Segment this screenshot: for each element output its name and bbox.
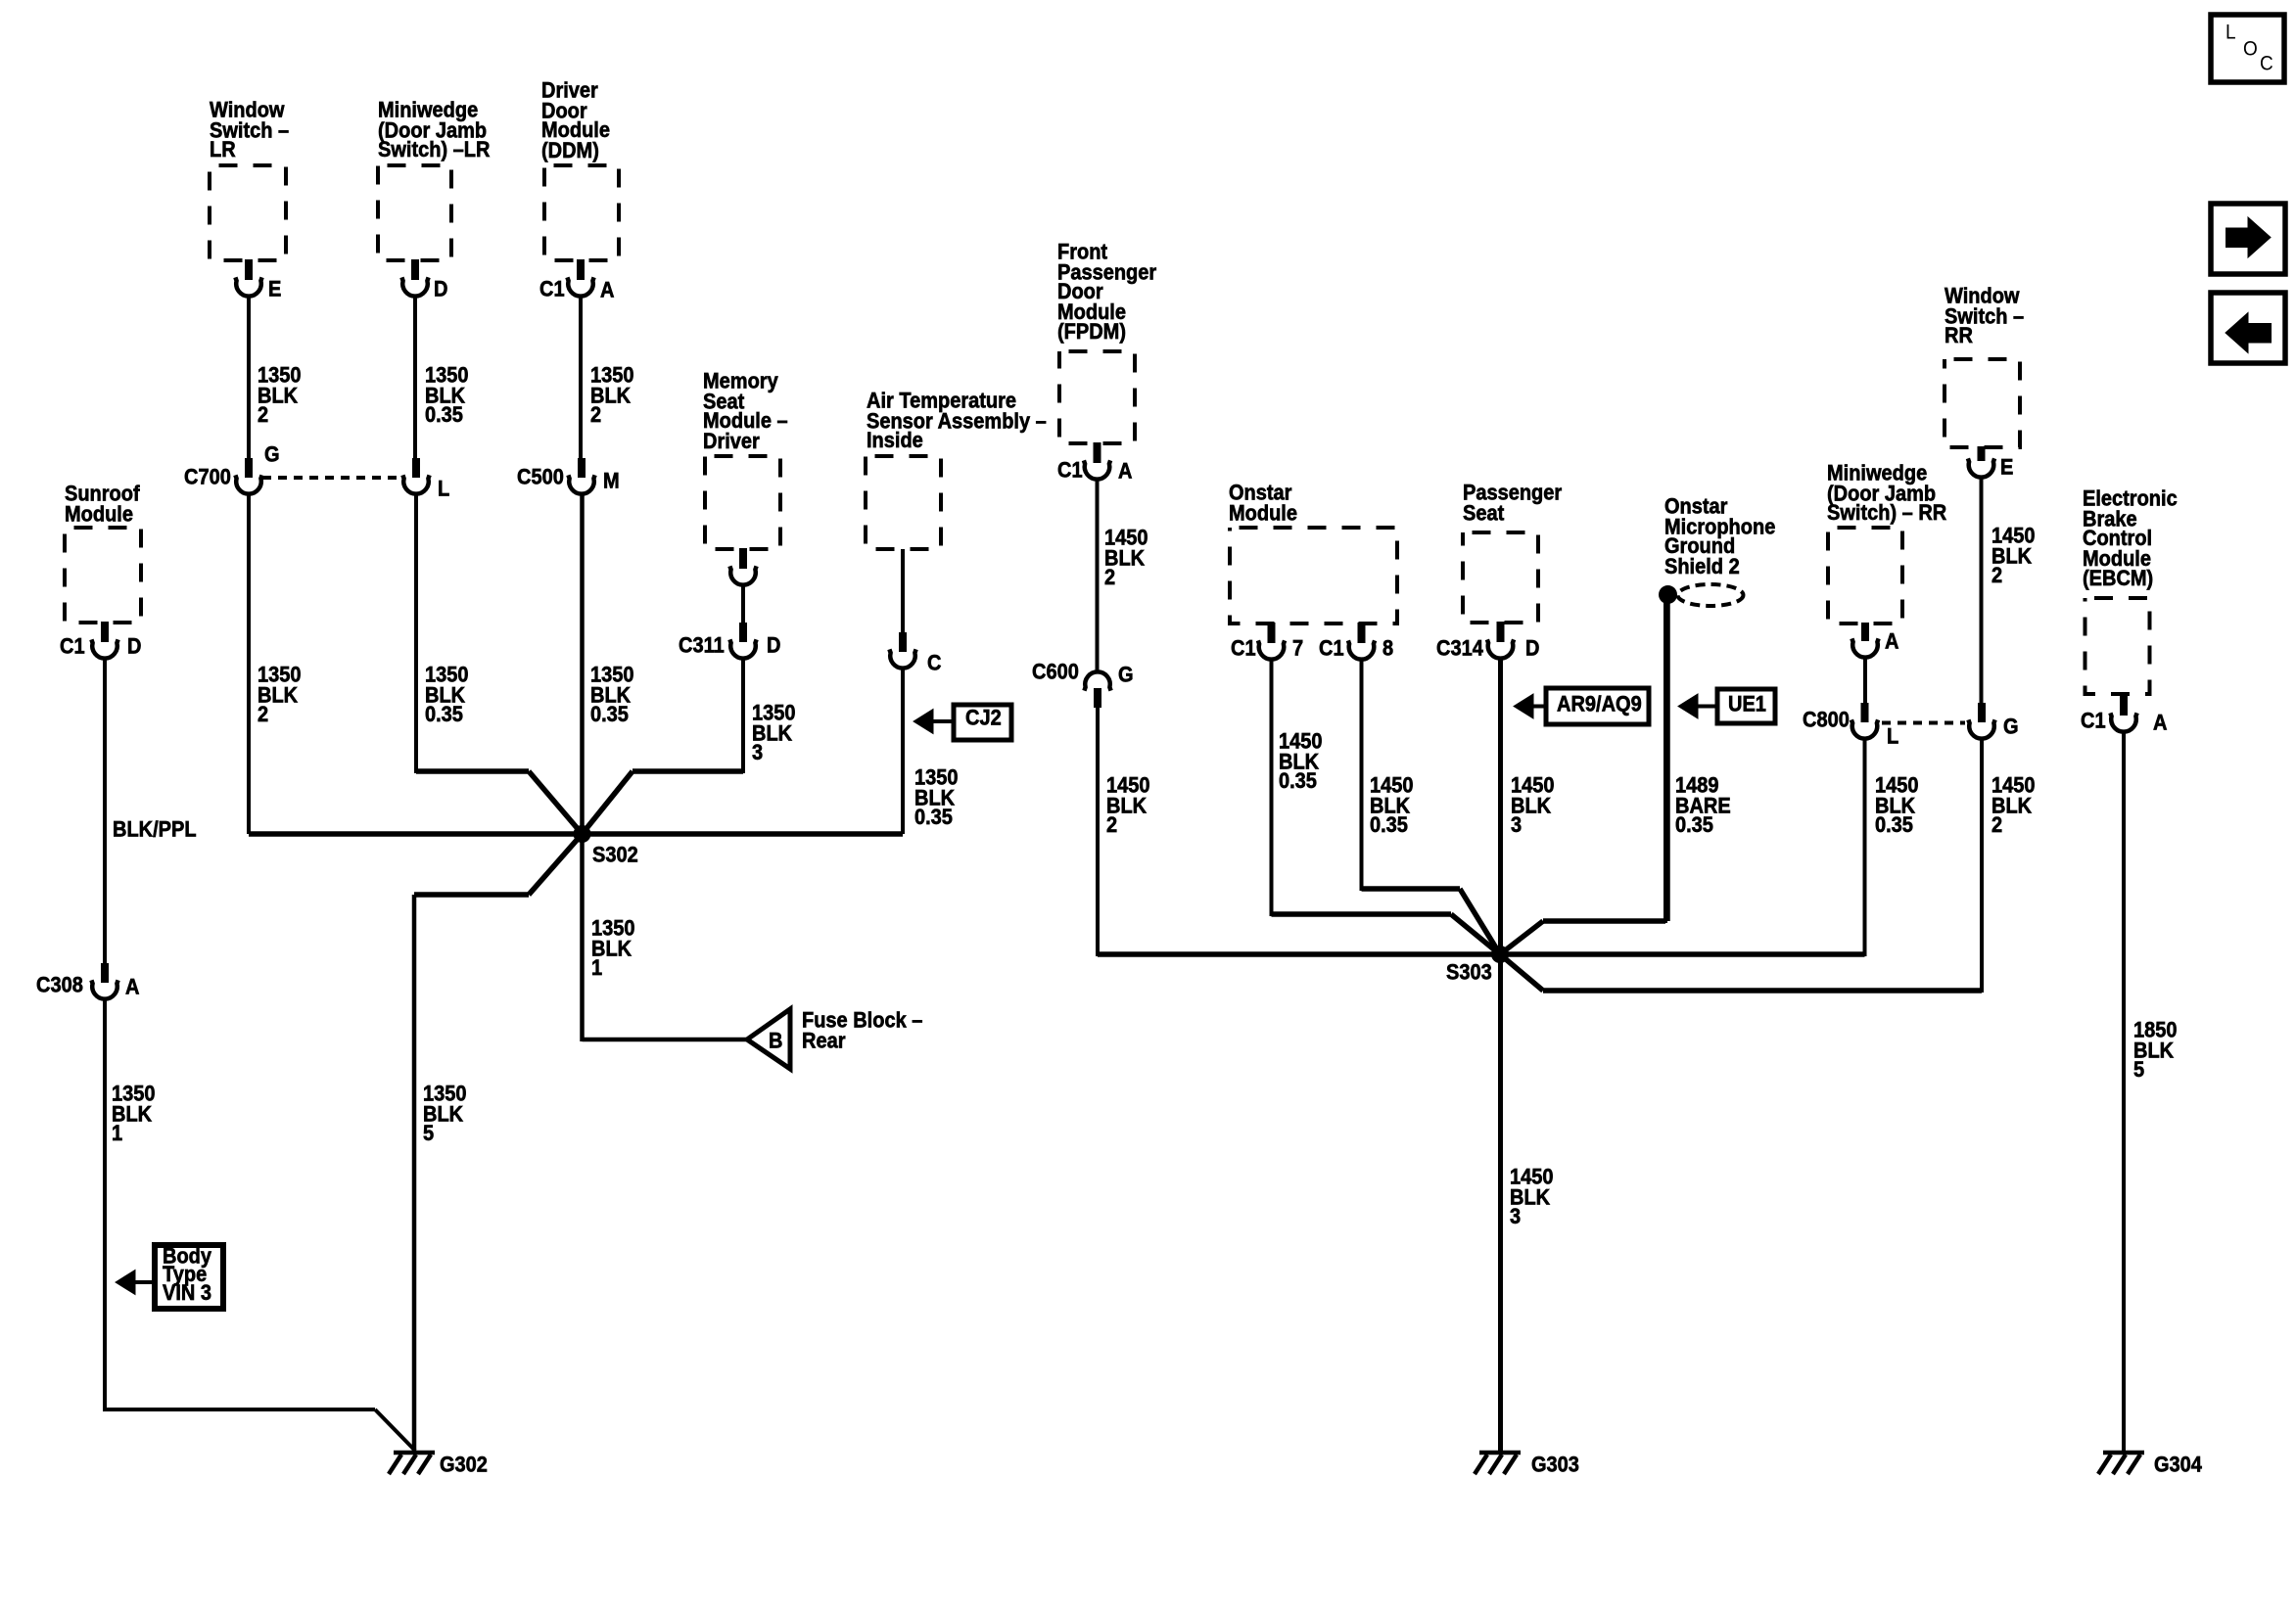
splice label S302 bbox=[592, 846, 638, 865]
connector C800 L bbox=[1861, 703, 1869, 722]
connector C500 M bbox=[578, 458, 586, 478]
connector C311 D bbox=[739, 623, 747, 642]
wire label 1350 BLK 2 (DDM) bbox=[590, 366, 634, 426]
wire label 1450 BLK 2 (window RR) bbox=[1991, 527, 2036, 586]
module box Air Temperature Sensor Assembly - Inside bbox=[866, 456, 941, 549]
connector C1 label (EBCM) bbox=[2081, 712, 2106, 731]
label Passenger Seat bbox=[1463, 484, 1562, 524]
pin letter L (C700 mate) bbox=[438, 480, 449, 499]
pin letter A (DDM) bbox=[600, 281, 614, 300]
ground label G302 bbox=[440, 1455, 488, 1475]
label Front Passenger Door Module (FPDM) bbox=[1057, 243, 1156, 343]
connector C600 G flipped bbox=[1084, 671, 1110, 690]
connector C1 label (Onstar 8) bbox=[1319, 639, 1344, 659]
pin letter D (Sunroof) bbox=[127, 637, 141, 657]
connector G (window RR chain) bbox=[1978, 703, 1986, 722]
node onstar microphone ground shield dot bbox=[1659, 585, 1677, 604]
wire S302 bus left bbox=[249, 831, 583, 837]
wire EBCM down to G304 bbox=[2122, 733, 2126, 1452]
wire S303 diag to mic bbox=[1500, 921, 1543, 954]
connector C1 D (Sunroof) bbox=[101, 622, 109, 642]
wire mic dot down bbox=[1665, 594, 1670, 921]
pin letter A (Miniwedge RR) bbox=[1885, 632, 1898, 652]
wire S303 bus right bbox=[1500, 951, 1865, 957]
wire C314 down through S303 bbox=[1498, 660, 1503, 956]
wire label 1450 BLK 2 (FPDM) bbox=[1104, 529, 1148, 588]
wire ground leg 1350 BLK 5 bbox=[412, 895, 417, 1452]
splice label S303 bbox=[1446, 963, 1492, 983]
wire elbow L to diagonal bbox=[416, 768, 529, 774]
wire label 1350 BLK 5 (G302 leg) bbox=[423, 1085, 467, 1144]
wire C1-8 diagonal to S303 bbox=[1460, 889, 1500, 954]
wire label 1450 BLK 0.35 (C800) bbox=[1875, 776, 1919, 836]
pin letter A (C308) bbox=[125, 978, 139, 997]
label Memory Seat Module - Driver bbox=[703, 372, 788, 452]
wire label 1450 BLK 2 (G RR leg) bbox=[1991, 776, 2036, 836]
pin letter E (window RR) bbox=[2000, 458, 2013, 478]
wire FPDM to C600 bbox=[1096, 481, 1100, 673]
wire label 1489 BARE 0.35 (mic) bbox=[1675, 776, 1731, 836]
pin letter D (C314) bbox=[1525, 639, 1539, 659]
pin letter A (EBCM) bbox=[2153, 714, 2167, 733]
wire S302 elbow down-left bbox=[529, 834, 583, 895]
ground G304 bbox=[2103, 1451, 2144, 1455]
wire air temp box to C connector bbox=[901, 549, 905, 634]
connector pin+cup E (Window Switch LR) bbox=[245, 259, 253, 280]
wire C600 down to S303 bus bbox=[1096, 707, 1100, 956]
wire label 1350 BLK 0.35 (air temp leg) bbox=[914, 768, 959, 828]
label Onstar Module bbox=[1229, 484, 1297, 524]
connector L (C700 mate) bbox=[412, 458, 420, 478]
pin letter A (FPDM) bbox=[1118, 462, 1132, 482]
icon left arrow bbox=[2226, 313, 2248, 353]
splice S302 bbox=[574, 825, 591, 843]
wire label 1450 BLK 0.35 (C1-8) bbox=[1370, 776, 1414, 836]
wire G RR leg up bbox=[1980, 740, 1984, 993]
wire label 1350 BLK 0.35 (C500 leg) bbox=[590, 666, 634, 725]
wire air temp C down to S302 bus bbox=[901, 670, 905, 834]
wire label 1450 BLK 0.35 (C1-7) bbox=[1279, 732, 1323, 792]
legend box left arrow bbox=[2211, 293, 2285, 363]
module box Onstar Module bbox=[1230, 528, 1397, 624]
label Miniwedge (Door Jamb Switch) - RR bbox=[1827, 464, 1946, 524]
wire C1-8 down bbox=[1360, 661, 1364, 891]
wire C1-7 elbow bbox=[1272, 911, 1452, 917]
connector C1 label (Onstar 7) bbox=[1231, 639, 1256, 659]
wire C1-8 elbow bbox=[1362, 886, 1461, 892]
connector C1 A (FPDM) bbox=[1094, 442, 1101, 463]
wire diagonal into G302 bbox=[375, 1409, 415, 1451]
pin number 7 bbox=[1292, 639, 1303, 659]
callout text CJ2 bbox=[965, 709, 1002, 728]
label Sunroof Module bbox=[65, 485, 140, 525]
pin letter G (C700) bbox=[264, 445, 280, 465]
wire label 1350 BLK 0.35 (miniwedge LR) bbox=[425, 366, 469, 426]
connector C1 A (DDM) bbox=[577, 259, 585, 280]
pin letter E bbox=[268, 280, 281, 300]
connector C1 label (Sunroof) bbox=[60, 637, 85, 657]
module box Sunroof Module bbox=[65, 528, 141, 623]
label Window Switch - RR bbox=[1945, 287, 2024, 346]
connector label C308 bbox=[36, 976, 83, 995]
pin letter L (C800) bbox=[1887, 727, 1898, 747]
legend box right arrow bbox=[2211, 204, 2285, 274]
wire label BLK/PPL bbox=[113, 820, 197, 840]
wire L to elbow bbox=[414, 495, 418, 773]
arrow to Body Type VIN 3 bbox=[116, 1270, 135, 1295]
wire label 1350 BLK 2 (window LR) bbox=[258, 366, 302, 426]
fuse block triangle B bbox=[747, 1009, 790, 1069]
wire bottom horizontal to G302 bbox=[105, 1408, 375, 1411]
label Air Temperature Sensor Assembly - Inside bbox=[867, 392, 1047, 451]
callout box UE1 bbox=[1717, 689, 1775, 723]
callout text UE1 bbox=[1728, 695, 1766, 715]
wire sunroof BLK/PPL down bbox=[103, 660, 107, 965]
wire DDM A to C500 bbox=[579, 298, 583, 460]
dashed link C800 L to G bbox=[1882, 721, 1965, 725]
wire label 1450 BLK 3 (G303 leg) bbox=[1510, 1168, 1554, 1227]
connector label C500 bbox=[517, 468, 564, 487]
connector C1 7 bbox=[1268, 623, 1276, 643]
wire mic leg up bbox=[1663, 602, 1667, 923]
module box Window Switch - LR bbox=[210, 165, 286, 260]
pin letter G (C600) bbox=[1118, 666, 1134, 685]
pin letter C (air temp) bbox=[927, 654, 941, 673]
wire S302 diagonal up-right to C311 bbox=[583, 771, 633, 834]
module box Miniwedge RR bbox=[1828, 528, 1902, 624]
module box Miniwedge LR bbox=[378, 165, 451, 260]
dashed link C700 to L bbox=[262, 476, 399, 480]
label Fuse Block - Rear bbox=[802, 1011, 922, 1051]
wire memory seat to C311 bbox=[741, 586, 745, 624]
wire label 1350 BLK 2 (C700 leg) bbox=[258, 666, 302, 725]
wire Miniwedge LR D to L bbox=[413, 298, 417, 460]
icon right arrow bbox=[2226, 228, 2250, 249]
wire diagonal L to S302 bbox=[529, 771, 583, 834]
connector C308 A bbox=[101, 963, 109, 983]
pin letter M (C500) bbox=[603, 472, 620, 491]
callout box Body Type VIN 3 bbox=[155, 1245, 223, 1309]
arrow to AR9/AQ9 bbox=[1514, 694, 1533, 718]
wire label 1350 BLK 1 (sunroof leg) bbox=[112, 1085, 156, 1144]
arrow to CJ2 bbox=[914, 710, 933, 734]
label Window Switch - LR bbox=[210, 101, 289, 161]
module box Front Passenger Door Module FPDM bbox=[1059, 351, 1135, 443]
wire window RR E down bbox=[1980, 479, 1984, 705]
wire C700 to S302 bus bbox=[247, 495, 251, 834]
connector label C311 bbox=[679, 636, 725, 656]
connector C1 A (EBCM) bbox=[2120, 693, 2128, 716]
connector C1 8 bbox=[1358, 623, 1366, 643]
connector pin+cup D (Miniwedge LR) bbox=[411, 259, 419, 280]
callout text Body Type VIN 3 bbox=[163, 1248, 211, 1303]
ground label G303 bbox=[1531, 1455, 1579, 1475]
label Onstar Microphone Ground Shield 2 bbox=[1664, 497, 1775, 577]
pin letter D (C311) bbox=[767, 636, 780, 656]
wire C1-7 diagonal to S303 bbox=[1451, 914, 1500, 954]
wire label 1450 BLK 2 (C600 leg) bbox=[1106, 776, 1150, 836]
connector label C800 bbox=[1803, 711, 1850, 730]
module box Passenger Seat bbox=[1463, 532, 1538, 623]
wire C800 leg up bbox=[1863, 740, 1867, 956]
wire C311 down to elbow bbox=[741, 660, 745, 773]
connector label C600 bbox=[1032, 663, 1079, 682]
legend letter L bbox=[2226, 23, 2236, 42]
connector label C314 bbox=[1436, 639, 1483, 659]
wire label 1350 BLK 0.35 (L leg) bbox=[425, 666, 469, 725]
connector E (Window Switch RR) bbox=[1978, 446, 1986, 461]
connector C314 D bbox=[1497, 622, 1505, 642]
connector cup below memory seat box bbox=[739, 548, 747, 569]
module box Driver Door Module DDM bbox=[544, 165, 619, 260]
connector A (Miniwedge RR) bbox=[1861, 623, 1869, 641]
wire label 1450 BLK 3 (C314) bbox=[1511, 776, 1555, 836]
label Driver Door Module (DDM) bbox=[541, 81, 610, 162]
callout box AR9/AQ9 bbox=[1546, 688, 1649, 724]
legend letter O bbox=[2243, 40, 2258, 59]
wire C1-7 down bbox=[1270, 661, 1274, 916]
wire S303 down to G303 bbox=[1498, 954, 1503, 1452]
wire S302 bus right bbox=[583, 831, 904, 837]
pin letter D bbox=[434, 280, 447, 300]
connector C (air temp) bbox=[899, 632, 907, 652]
pin letter G (window RR) bbox=[2003, 717, 2019, 737]
callout text AR9/AQ9 bbox=[1557, 695, 1642, 715]
dashed ellipse onstar mic bbox=[1678, 584, 1744, 606]
wire miniwedge RR A to C800 bbox=[1863, 659, 1867, 705]
wire Window Switch LR E to C700 bbox=[247, 298, 251, 460]
callout box CJ2 bbox=[954, 705, 1011, 740]
legend letter C bbox=[2260, 55, 2273, 73]
fuse pin letter B bbox=[769, 1032, 782, 1051]
module box Window Switch RR bbox=[1945, 359, 2020, 447]
ground G303 bbox=[1479, 1451, 1521, 1455]
wire label 1350 BLK 3 (C311 leg) bbox=[752, 704, 796, 763]
ground label G304 bbox=[2154, 1455, 2202, 1475]
wire C308 down bbox=[103, 1000, 107, 1411]
connector C700 pin G side bbox=[245, 458, 253, 478]
connector C1 label (FPDM) bbox=[1057, 461, 1083, 481]
connector C1 label (DDM) bbox=[539, 280, 565, 300]
label Miniwedge (Door Jamb Switch) - LR bbox=[378, 101, 490, 161]
legend box LOC bbox=[2211, 15, 2284, 82]
wire S303 bus left bbox=[1098, 951, 1500, 957]
arrow to UE1 bbox=[1678, 694, 1698, 718]
pin number 8 bbox=[1382, 639, 1393, 659]
wire S303 diag to G RR bbox=[1500, 954, 1543, 991]
module box EBCM bbox=[2085, 598, 2150, 694]
splice S303 bbox=[1491, 946, 1509, 963]
module box Memory Seat Module - Driver bbox=[705, 456, 780, 549]
ground G302 bbox=[394, 1451, 435, 1455]
wire label 1850 BLK 5 (EBCM) bbox=[2133, 1021, 2178, 1081]
wire C500 through S302 down bbox=[580, 495, 585, 1041]
wire label 1350 BLK 1 (fuse leg) bbox=[591, 919, 635, 979]
connector label C700 bbox=[184, 468, 231, 487]
label EBCM bbox=[2083, 489, 2178, 589]
wire fuse leg elbow bbox=[583, 1038, 748, 1042]
